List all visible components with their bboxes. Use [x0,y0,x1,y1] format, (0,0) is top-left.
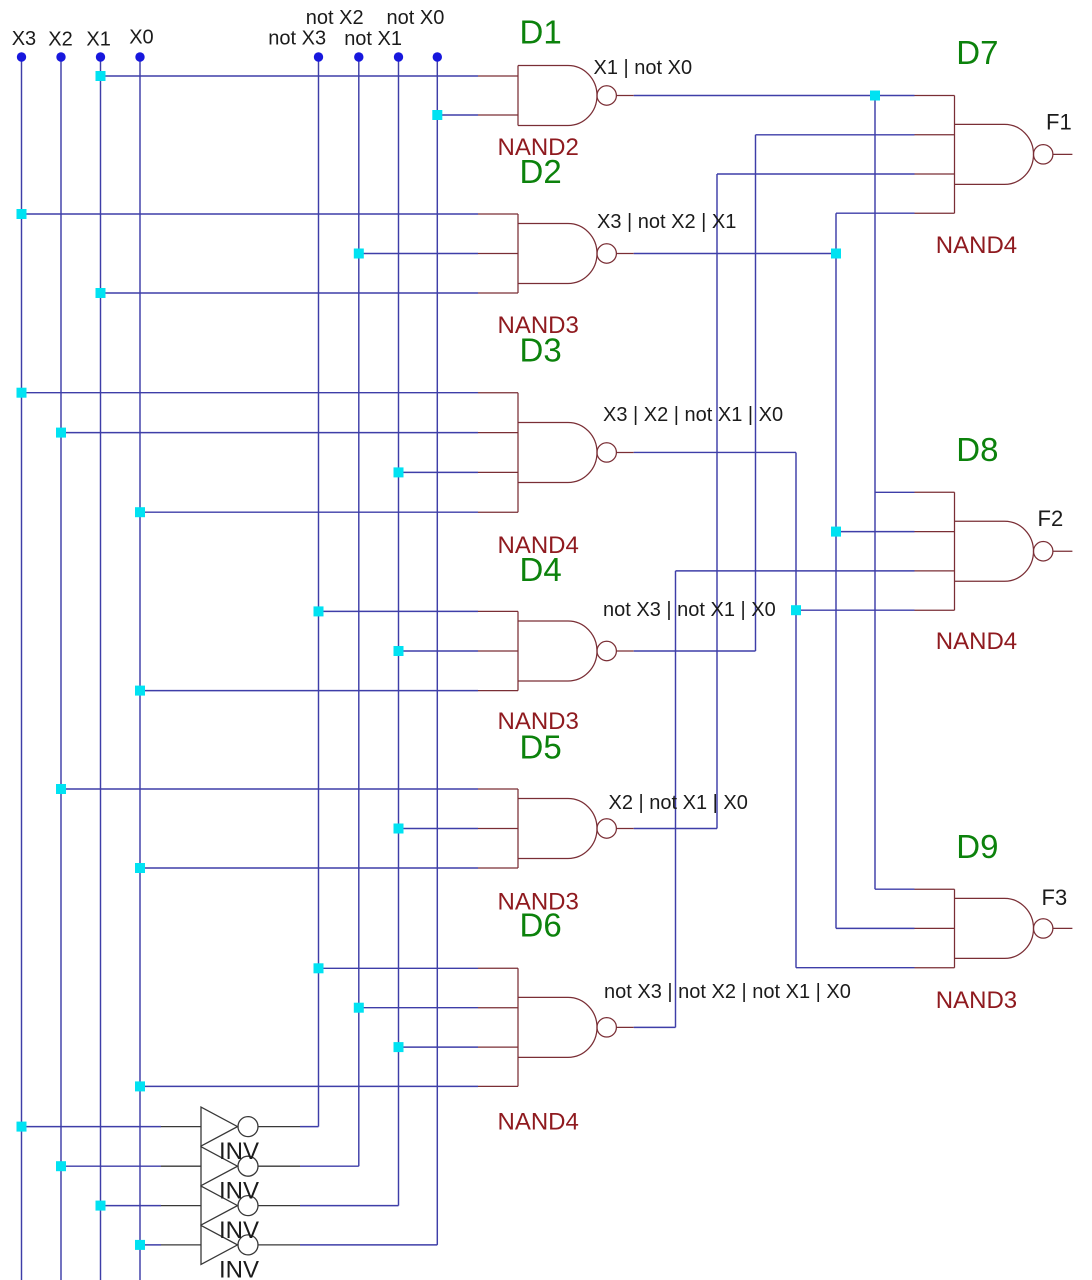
svg-text:X3: X3 [12,28,36,50]
junction X3 to INV1 input junction [17,1122,27,1132]
wire net D2 branch to D7 pin4 [836,212,915,214]
node X1 input terminal [96,52,105,61]
wire not X1 to D5 pin2 [399,828,479,830]
wire not X1 to D4 pin2 [399,650,479,652]
junction net D2 tap upper [831,249,841,259]
wire not X0 to D1 pin2 [437,114,478,116]
D2 input pin 1 stub [478,213,518,215]
D5 output pin stub [616,828,633,830]
node not X3 terminal [314,52,323,61]
junction X2 to INV2 input junction [56,1161,66,1171]
junction net D1 tap [870,91,880,101]
wire X0 rail [139,57,141,1280]
D2 output bubble [597,244,616,263]
wire not X0 rail [436,57,438,1245]
D3 output pin stub [616,451,633,453]
svg-text:X1: X1 [86,29,110,51]
D7 output bubble [1034,145,1053,164]
inverter INV1 body [201,1107,238,1146]
op gate D8 NAND4 [915,492,1073,610]
D9 output pin stub [1053,927,1073,929]
wire net D1 horizontal to D7 pin1 [634,95,915,97]
wire not X1 to D3 pin3 [399,471,479,473]
D8 input pin 3 stub [915,570,955,572]
junction X3 to D3 pin1 junction [17,388,27,398]
svg-text:X2: X2 [48,29,72,51]
svg-text:D3: D3 [520,332,562,369]
D1 output pin stub [616,95,633,97]
wire net D3 horizontal [634,451,796,453]
NAND gate D9 body [955,889,1034,968]
svg-text:not X3 | not X1 | X0: not X3 | not X1 | X0 [603,599,776,621]
wire net D2 branch to D9 pin2 [836,927,915,929]
node X2 input terminal [56,52,65,61]
D4 output pin stub [616,650,633,652]
svg-text:X3 | X2 | not X1 | X0: X3 | X2 | not X1 | X0 [603,404,783,426]
D8 output bubble [1034,542,1053,561]
svg-text:not X0: not X0 [387,7,445,29]
D7 input pin 2 stub [915,134,955,136]
svg-text:D5: D5 [520,729,562,766]
wire X0 to D5 pin3 [140,867,478,869]
NAND gate D7 body [955,96,1034,214]
op gate D9 NAND3 [915,889,1073,968]
D4 input pin 1 stub [478,610,518,612]
D8 input pin 4 stub [915,609,955,611]
junction X0 to D3 pin4 junction [135,507,145,517]
NAND gate D6 body [518,968,597,1086]
wire net D5 horizontal [634,828,717,830]
INV2 input stub [161,1165,201,1167]
D3 input pin 2 stub [478,432,518,434]
inverter INV4 body [201,1225,238,1264]
INV3 output bubble [238,1196,258,1216]
wire net D1 branch to D8 pin1 [875,491,915,493]
D2 output pin stub [616,253,633,255]
D6 output pin stub [616,1026,633,1028]
wire not X3 to D4 pin1 [319,610,479,612]
D6 output bubble [597,1018,616,1037]
junction net D3 tap [791,605,801,615]
svg-text:X3 | not X2 | X1: X3 | not X2 | X1 [597,211,736,233]
wire not X3 to D6 pin1 [319,967,479,969]
wire not X2 to D2 pin2 [359,253,478,255]
svg-text:not X3: not X3 [268,28,326,50]
D6 input pin 2 stub [478,1007,518,1009]
wire X1 to INV3 input [101,1205,162,1207]
D3 input pin 3 stub [478,471,518,473]
junction X1 to INV3 input junction [96,1201,106,1211]
wire X2 to D3 pin2 [61,432,478,434]
svg-text:F2: F2 [1038,506,1064,531]
junction X3 to D2 pin1 junction [17,209,27,219]
wire X2 to INV2 input [61,1165,161,1167]
junction not X2 to D2 pin2 junction [354,249,364,259]
wire net D3 branch to D9 pin3 [796,967,915,969]
wire INV2 output to not X2 rail [300,1165,359,1167]
NAND gate D4 body [518,611,597,690]
junction not X3 to D4 pin1 junction [314,606,324,616]
D8 input pin 1 stub [915,491,955,493]
D5 output bubble [597,819,616,838]
op gate D1 NAND2 [478,66,634,126]
node X3 input terminal [17,52,26,61]
wire net D5 vertical rise [716,174,718,829]
junction not X0 to D1 pin2 junction [432,110,442,120]
svg-text:INV: INV [219,1178,259,1205]
D6 input pin 4 stub [478,1085,518,1087]
junction not X1 to D6 pin3 junction [394,1042,404,1052]
wire net D6 horizontal [634,1026,676,1028]
wire net D3 vertical [795,452,797,967]
inverter INV2 body [201,1147,238,1186]
op gate D7 NAND4 [915,96,1073,214]
D6 input pin 3 stub [478,1046,518,1048]
INV4 input stub [161,1244,201,1246]
wire X0 to D4 pin3 [140,690,478,692]
svg-text:NAND4: NAND4 [936,628,1017,655]
svg-text:NAND4: NAND4 [936,232,1017,259]
wire net D4 branch to D7 pin2 [756,134,915,136]
svg-text:INV: INV [219,1257,259,1280]
D5 input pin 1 stub [478,788,518,790]
wire net D5 branch to D7 pin3 [717,173,915,175]
D5 input pin 3 stub [478,867,518,869]
op gate D5 NAND3 [478,789,634,868]
svg-text:not X3 | not X2 | not X1 | X0: not X3 | not X2 | not X1 | X0 [604,981,851,1003]
D7 input pin 4 stub [915,212,955,214]
D1 input pin 2 stub [478,114,518,116]
wire not X2 to D6 pin2 [359,1007,478,1009]
node not X2 terminal [354,52,363,61]
NAND gate D1 body [518,66,597,126]
svg-text:not X1: not X1 [344,28,402,50]
junction X2 to D3 pin2 junction [56,428,66,438]
svg-text:INV: INV [219,1138,259,1165]
svg-text:D9: D9 [956,828,998,865]
svg-text:NAND4: NAND4 [498,1109,579,1136]
wire X0 to INV4 input [140,1244,161,1246]
wire net D1 vertical drop [874,96,876,890]
D7 output pin stub [1053,153,1073,155]
junction X2 to D5 pin1 junction [56,784,66,794]
junction not X3 to D6 pin1 junction [314,963,324,973]
wire net D6 vertical rise [675,571,677,1027]
svg-text:X1 | not X0: X1 | not X0 [594,57,693,79]
D1 input pin 1 stub [478,75,518,77]
svg-text:D7: D7 [956,34,998,71]
D4 input pin 3 stub [478,690,518,692]
wire X1 rail [100,57,102,1280]
wire net D6 branch to D8 pin3 [676,570,915,572]
wire X1 to D2 pin3 [101,292,479,294]
junction not X2 to D6 pin2 junction [354,1003,364,1013]
svg-text:D8: D8 [956,431,998,468]
D5 input pin 2 stub [478,828,518,830]
svg-text:X2 | not X1 | X0: X2 | not X1 | X0 [609,792,748,814]
wire X3 to D3 pin1 [22,392,479,394]
wire not X3 rail [318,57,320,1127]
INV2 output stub [258,1165,300,1167]
D3 input pin 1 stub [478,392,518,394]
INV4 output stub [258,1244,300,1246]
wire not X2 rail [358,57,360,1166]
svg-text:D6: D6 [520,907,562,944]
wire not X1 to D6 pin3 [399,1046,479,1048]
INV1 output stub [258,1126,300,1128]
junction X1 to D1 pin1 junction [96,71,106,81]
wire not X1 rail [398,57,400,1206]
wire X3 to D2 pin1 [22,213,479,215]
D8 input pin 2 stub [915,531,955,533]
wire net D4 horizontal [634,650,756,652]
D2 input pin 2 stub [478,253,518,255]
INV4 output bubble [238,1235,258,1255]
NAND gate D2 body [518,214,597,293]
INV3 output stub [258,1205,300,1207]
D8 output pin stub [1053,550,1073,552]
op gate D4 NAND3 [478,611,634,690]
wire net D2 horizontal [634,253,836,255]
op gate D2 NAND3 [478,214,634,293]
wire X0 to D3 pin4 [140,511,478,513]
wire net D4 vertical rise [755,135,757,651]
D4 output bubble [597,641,616,660]
svg-text:D1: D1 [520,14,562,51]
wire net D2 vertical [835,213,837,928]
junction X0 to INV4 input junction [135,1240,145,1250]
wire net D1 branch to D9 pin1 [875,888,915,890]
wire net D2 branch to D8 pin2 [836,531,915,533]
wire INV4 output to not X0 rail [300,1244,437,1246]
junction not X1 to D3 pin3 junction [394,467,404,477]
INV1 output bubble [238,1117,258,1137]
svg-text:D4: D4 [520,551,562,588]
junction net D2 tap lower [831,527,841,537]
svg-text:X0: X0 [129,26,153,48]
INV1 input stub [161,1126,201,1128]
NAND gate D8 body [955,492,1034,610]
D4 input pin 2 stub [478,650,518,652]
svg-text:not X2: not X2 [306,7,364,29]
INV3 input stub [161,1205,201,1207]
D9 output bubble [1034,919,1053,938]
D9 input pin 2 stub [915,927,955,929]
D1 output bubble [597,86,616,105]
D3 output bubble [597,443,616,462]
op gate D3 NAND4 [478,393,634,513]
wire X1 to D1 pin1 [101,75,479,77]
svg-text:NAND3: NAND3 [936,987,1017,1014]
D9 input pin 1 stub [915,888,955,890]
svg-text:F3: F3 [1042,885,1068,910]
D2 input pin 3 stub [478,292,518,294]
D7 input pin 1 stub [915,95,955,97]
junction X1 to D2 pin3 junction [96,288,106,298]
junction X0 to D4 pin3 junction [135,686,145,696]
inverter INV3 body [201,1186,238,1225]
node not X0 terminal [433,52,442,61]
wire net D3 branch to D8 pin4 [796,609,915,611]
node not X1 terminal [394,52,403,61]
NAND gate D3 body [518,393,597,513]
node X0 input terminal [135,52,144,61]
INV2 output bubble [238,1156,258,1176]
NAND gate D5 body [518,789,597,868]
wire INV3 output to not X1 rail [300,1205,399,1207]
junction X0 to D5 pin3 junction [135,863,145,873]
svg-text:D2: D2 [520,153,562,190]
wire X2 to D5 pin1 [61,788,478,790]
wire X3 rail [21,57,23,1280]
svg-text:INV: INV [219,1217,259,1244]
junction not X1 to D4 pin2 junction [394,646,404,656]
D7 input pin 3 stub [915,173,955,175]
op gate D6 NAND4 [478,968,634,1086]
wire INV1 output to not X3 rail [300,1126,319,1128]
wire X3 to INV1 input [22,1126,162,1128]
junction X0 to D6 pin4 junction [135,1081,145,1091]
wire X0 to D6 pin4 [140,1085,478,1087]
svg-text:F1: F1 [1046,110,1072,135]
D3 input pin 4 stub [478,511,518,513]
D6 input pin 1 stub [478,967,518,969]
D9 input pin 3 stub [915,967,955,969]
junction not X1 to D5 pin2 junction [394,824,404,834]
wire X2 rail [60,57,62,1280]
